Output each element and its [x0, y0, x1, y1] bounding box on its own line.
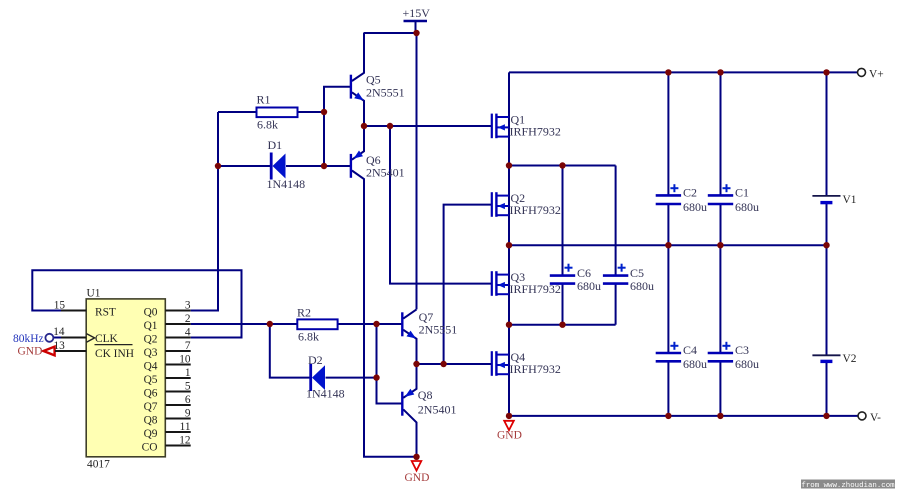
- wire Q8 collector to GND: [403, 409, 416, 456]
- svg-text:IRFH7932: IRFH7932: [510, 203, 561, 217]
- junction Q3 source / Q4 drain: [506, 322, 512, 328]
- battery V1: [812, 194, 856, 206]
- svg-text:5: 5: [185, 380, 191, 392]
- pin 5: [165, 380, 191, 392]
- transistor Q5 2N5551 NPN: [351, 73, 405, 101]
- svg-text:1N4148: 1N4148: [267, 177, 306, 191]
- svg-text:Q8: Q8: [418, 388, 433, 402]
- pin 1: [165, 367, 190, 379]
- junction D1 left / Q0 net: [215, 163, 221, 169]
- svg-text:Q2: Q2: [144, 334, 158, 346]
- IC U1 4017: [86, 288, 165, 471]
- svg-text:11: 11: [180, 421, 191, 433]
- svg-text:C1: C1: [735, 186, 749, 200]
- wire MOSFET chain vertical: [508, 72, 510, 416]
- wire D1 right to Q6 base: [286, 165, 352, 167]
- junction D2 right: [373, 374, 379, 380]
- svg-text:12: 12: [179, 434, 191, 446]
- ground GND mid: [405, 461, 430, 484]
- capacitor C6 680u: [550, 264, 601, 294]
- junction R2 right / Q8 base branch: [373, 321, 379, 327]
- wire branch to Q3 gate: [390, 126, 491, 284]
- wire D1 left: [218, 165, 271, 167]
- junction C6 top: [559, 162, 565, 168]
- svg-text:7: 7: [185, 340, 191, 352]
- pin 10: [165, 353, 191, 365]
- port GND left arrow: [18, 346, 55, 358]
- svg-text:15: 15: [54, 299, 66, 311]
- wire R1 right: [298, 111, 325, 113]
- terminal V+: [858, 68, 884, 80]
- diode D1 1N4148: [267, 138, 306, 191]
- transistor Q6 2N5401 PNP: [351, 151, 405, 180]
- wire Q6 collector to GND node: [352, 171, 417, 457]
- svg-text:9: 9: [185, 407, 191, 419]
- svg-text:Q3: Q3: [144, 347, 158, 359]
- svg-text:80kHz: 80kHz: [13, 333, 44, 345]
- pin 6: [165, 394, 191, 406]
- svg-text:680u: 680u: [735, 357, 759, 371]
- pin 3: [165, 299, 191, 311]
- wire Q5 base / R1-D1 vertical: [324, 87, 352, 166]
- svg-text:C2: C2: [683, 186, 697, 200]
- svg-text:6.8k: 6.8k: [298, 330, 319, 344]
- wire C1 stubs: [720, 72, 722, 195]
- svg-text:2N5551: 2N5551: [366, 85, 405, 99]
- svg-text:Q1: Q1: [144, 320, 158, 332]
- capacitor C2 680u: [656, 184, 707, 214]
- pin 2: [165, 313, 191, 325]
- power +15V: [403, 6, 431, 33]
- svg-text:C5: C5: [630, 266, 644, 280]
- capacitor C5 680u: [603, 264, 654, 294]
- junction mid rail C2-C4: [665, 242, 671, 248]
- wire Q8 base branch: [377, 324, 403, 404]
- capacitor C3 680u: [708, 342, 759, 371]
- svg-text:V2: V2: [843, 353, 857, 365]
- svg-text:6: 6: [185, 394, 191, 406]
- junction +15V feed: [413, 30, 419, 36]
- junction bottom rail C4: [665, 413, 671, 419]
- junction top rail C2: [665, 69, 671, 75]
- svg-text:680u: 680u: [735, 200, 759, 214]
- junction D1 right / Q6 base: [321, 163, 327, 169]
- MOSFET Q3 IRFH7932: [492, 270, 561, 296]
- svg-text:GND: GND: [18, 346, 43, 358]
- svg-text:13: 13: [54, 340, 66, 352]
- terminal V-: [858, 412, 881, 424]
- svg-text:R2: R2: [297, 305, 311, 319]
- svg-text:680u: 680u: [630, 279, 654, 293]
- svg-text:GND: GND: [405, 472, 430, 484]
- wire RST to Q2 output loop: [32, 270, 241, 337]
- wire node Q1S/Q2D with C6 C5 tops: [509, 165, 616, 167]
- junction Q8 collector GND node: [413, 454, 419, 460]
- junction mid rail C1-C3: [717, 242, 723, 248]
- svg-text:680u: 680u: [577, 279, 601, 293]
- junction mid rail V1-V2: [823, 242, 829, 248]
- svg-text:IRFH7932: IRFH7932: [510, 124, 561, 138]
- wire C4 stubs: [667, 245, 669, 353]
- junction top rail C1: [717, 69, 723, 75]
- pin 14: [53, 326, 86, 338]
- svg-text:GND: GND: [497, 430, 522, 442]
- wire V+ top rail: [509, 71, 858, 73]
- svg-text:IRFH7932: IRFH7932: [510, 362, 561, 376]
- watermark: [801, 480, 895, 490]
- svg-text:V+: V+: [869, 69, 884, 81]
- svg-text:+15V: +15V: [403, 6, 431, 20]
- svg-text:U1: U1: [87, 288, 101, 300]
- wire Q5 emitter to node: [352, 92, 364, 126]
- wire C3 stubs: [719, 245, 721, 353]
- svg-text:4: 4: [185, 326, 191, 338]
- wire Q7 emitter to node: [403, 330, 416, 364]
- wire D2 left branch: [270, 324, 310, 378]
- svg-text:V-: V-: [870, 412, 881, 424]
- wire Q5 collector to +15V: [352, 33, 364, 81]
- capacitor C1 680u: [708, 184, 759, 214]
- pin 13: [54, 340, 87, 352]
- svg-text:R1: R1: [257, 93, 271, 107]
- svg-text:CK INH: CK INH: [95, 348, 134, 360]
- capacitor C4 680u: [656, 342, 707, 371]
- svg-text:CO: CO: [142, 442, 158, 454]
- svg-text:from www.zhoudian.com: from www.zhoudian.com: [801, 482, 895, 490]
- svg-text:Q5: Q5: [144, 374, 158, 386]
- svg-text:4017: 4017: [87, 459, 110, 471]
- junction mid rail at Q2 source: [506, 242, 512, 248]
- svg-text:1N4148: 1N4148: [306, 386, 345, 400]
- svg-text:10: 10: [179, 353, 191, 365]
- pin 15: [54, 299, 86, 311]
- wire R2 to Q7 base: [338, 323, 403, 325]
- svg-text:Q0: Q0: [144, 307, 158, 319]
- svg-text:14: 14: [53, 326, 65, 338]
- svg-text:C3: C3: [735, 343, 749, 357]
- svg-text:Q4: Q4: [144, 361, 158, 373]
- wire V2 stubs: [826, 245, 828, 355]
- transistor Q7 2N5551 NPN: [402, 310, 457, 339]
- svg-text:1: 1: [185, 367, 191, 379]
- pin 7: [165, 340, 191, 352]
- svg-text:RST: RST: [95, 307, 116, 319]
- svg-text:D1: D1: [268, 138, 283, 152]
- junction gate drive branch to Q3: [387, 123, 393, 129]
- junction Q7-Q8 emitters node: [413, 361, 419, 367]
- svg-text:D2: D2: [308, 353, 323, 367]
- wire R1 left: [218, 111, 257, 113]
- wire pin2 to R2: [191, 323, 298, 325]
- pin 12: [165, 434, 191, 446]
- svg-text:3: 3: [185, 299, 191, 311]
- svg-text:Q8: Q8: [144, 415, 158, 427]
- wire mid rail: [509, 244, 827, 246]
- wire V1 stubs: [826, 72, 828, 195]
- svg-text:2N5401: 2N5401: [366, 166, 405, 180]
- junction Q1 source / Q2 drain: [506, 162, 512, 168]
- transistor Q8 2N5401 PNP: [402, 388, 456, 417]
- svg-text:2N5551: 2N5551: [419, 323, 458, 337]
- svg-text:C4: C4: [683, 343, 697, 357]
- wire C2 stubs: [667, 72, 669, 195]
- resistor R1: [257, 93, 298, 132]
- wire 80kHz to CLK: [54, 337, 63, 339]
- wire Q8 emitter: [403, 364, 416, 398]
- resistor R2: [297, 305, 338, 343]
- junction bottom rail C3: [717, 413, 723, 419]
- wire node Q3S/Q4D with C6 C5 bottoms: [509, 324, 616, 326]
- junction branch to Q2 gate: [440, 361, 446, 367]
- svg-text:6.8k: 6.8k: [257, 118, 278, 132]
- svg-text:Q7: Q7: [144, 401, 158, 413]
- wire lower drive node to Q4 gate: [417, 363, 492, 365]
- svg-text:680u: 680u: [683, 200, 707, 214]
- junction Q5-Q6 emitters node: [361, 123, 367, 129]
- junction R2 left / D2 branch: [267, 321, 273, 327]
- wire Q0 pin to R1/D1: [191, 112, 218, 311]
- ground GND right: [497, 421, 522, 442]
- junction bottom rail at Q4 source: [506, 413, 512, 419]
- wire +15V rail to Q7 collector: [364, 33, 417, 309]
- junction C6 bottom: [559, 322, 565, 328]
- pin 11: [165, 421, 190, 433]
- pin 9: [165, 407, 191, 419]
- svg-text:V1: V1: [843, 194, 857, 206]
- wire Q6 emitter to node: [352, 126, 364, 160]
- wire Q7 collector: [403, 309, 416, 318]
- pin 4: [165, 326, 191, 338]
- svg-text:680u: 680u: [683, 357, 707, 371]
- port 80kHz: [13, 333, 53, 345]
- MOSFET Q1 IRFH7932: [492, 113, 561, 139]
- junction R1 right / Q5 base: [321, 109, 327, 115]
- svg-text:CLK: CLK: [95, 333, 119, 345]
- svg-text:2: 2: [185, 313, 191, 325]
- svg-text:C6: C6: [577, 266, 591, 280]
- svg-text:Q6: Q6: [144, 388, 158, 400]
- wire bottom rail: [509, 415, 858, 417]
- wire branch to Q2 gate: [444, 205, 491, 364]
- junction top rail V1: [823, 69, 829, 75]
- MOSFET Q2 IRFH7932: [492, 191, 561, 217]
- junction bottom rail V2: [823, 413, 829, 419]
- wire gate drive node to Q1 gate: [364, 125, 491, 127]
- svg-text:Q9: Q9: [144, 428, 158, 440]
- battery V2: [812, 353, 856, 365]
- wire D2 right: [326, 377, 377, 379]
- svg-text:2N5401: 2N5401: [418, 403, 457, 417]
- diode D2 1N4148: [306, 353, 345, 401]
- MOSFET Q4 IRFH7932: [492, 350, 561, 376]
